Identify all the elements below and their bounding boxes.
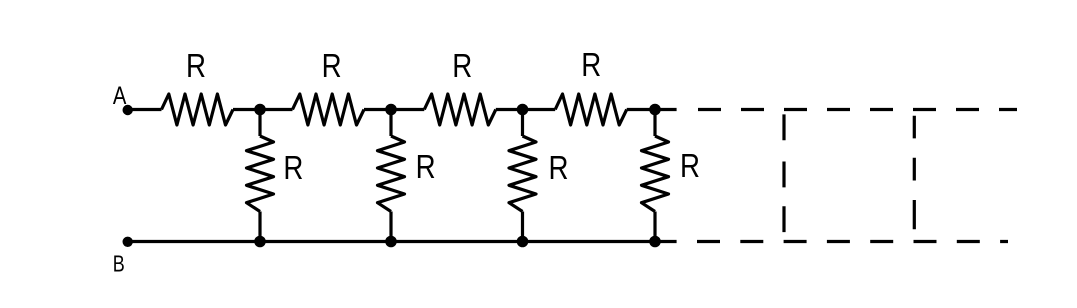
wire resistor R8 to bottom rail [653,212,656,242]
dashed top rail continuation [698,108,1017,111]
svg-text:R: R [581,46,601,83]
bottom rail wire B to last junction [128,240,677,243]
wire [364,108,424,111]
wire A to R1 [128,108,162,111]
svg-text:R: R [416,148,436,185]
wire [496,108,555,111]
svg-text:A: A [113,82,127,110]
resistor R3 (series, value R) [424,94,496,125]
resistor R7 (shunt, value R) [509,136,536,212]
junction dot top node 3 [518,105,526,113]
junction dot top node 4 [651,105,659,113]
dashed shunt branch 1 [782,114,785,232]
svg-text:R: R [322,47,342,84]
wire junction to resistor R5 [258,110,261,137]
svg-text:R: R [549,149,569,186]
wire resistor R7 to bottom rail [521,212,524,242]
svg-text:R: R [680,147,700,184]
resistor R1 (series, value R) [162,94,234,125]
svg-text:B: B [113,251,125,277]
junction dot bottom node 3 [518,237,526,245]
svg-text:R: R [186,47,206,84]
junction dot bottom node 2 [387,237,395,245]
svg-text:R: R [452,47,472,84]
junction dot top node 2 [387,105,395,113]
dashed bottom rail continuation [697,240,1008,243]
node B [124,238,131,245]
resistor R8 (shunt, value R) [642,136,669,212]
resistor R6 (shunt, value R) [378,136,405,212]
wire [233,108,293,111]
junction dot bottom node 4 [651,237,659,245]
node A [124,106,131,113]
wire junction to resistor R6 [389,110,392,137]
wire resistor R6 to bottom rail [389,212,392,242]
wire resistor R5 to bottom rail [258,212,261,242]
resistor R2 (series, value R) [293,94,365,125]
dashed shunt branch 2 [913,116,916,230]
junction dot bottom node 1 [256,237,264,245]
svg-text:R: R [283,149,303,186]
wire junction to resistor R7 [521,110,524,137]
wire junction to resistor R8 [653,110,656,137]
resistor R5 (shunt, value R) [247,136,274,212]
junction dot top node 1 [256,105,264,113]
resistor R4 (series, value R) [555,94,627,125]
wire [627,108,677,111]
